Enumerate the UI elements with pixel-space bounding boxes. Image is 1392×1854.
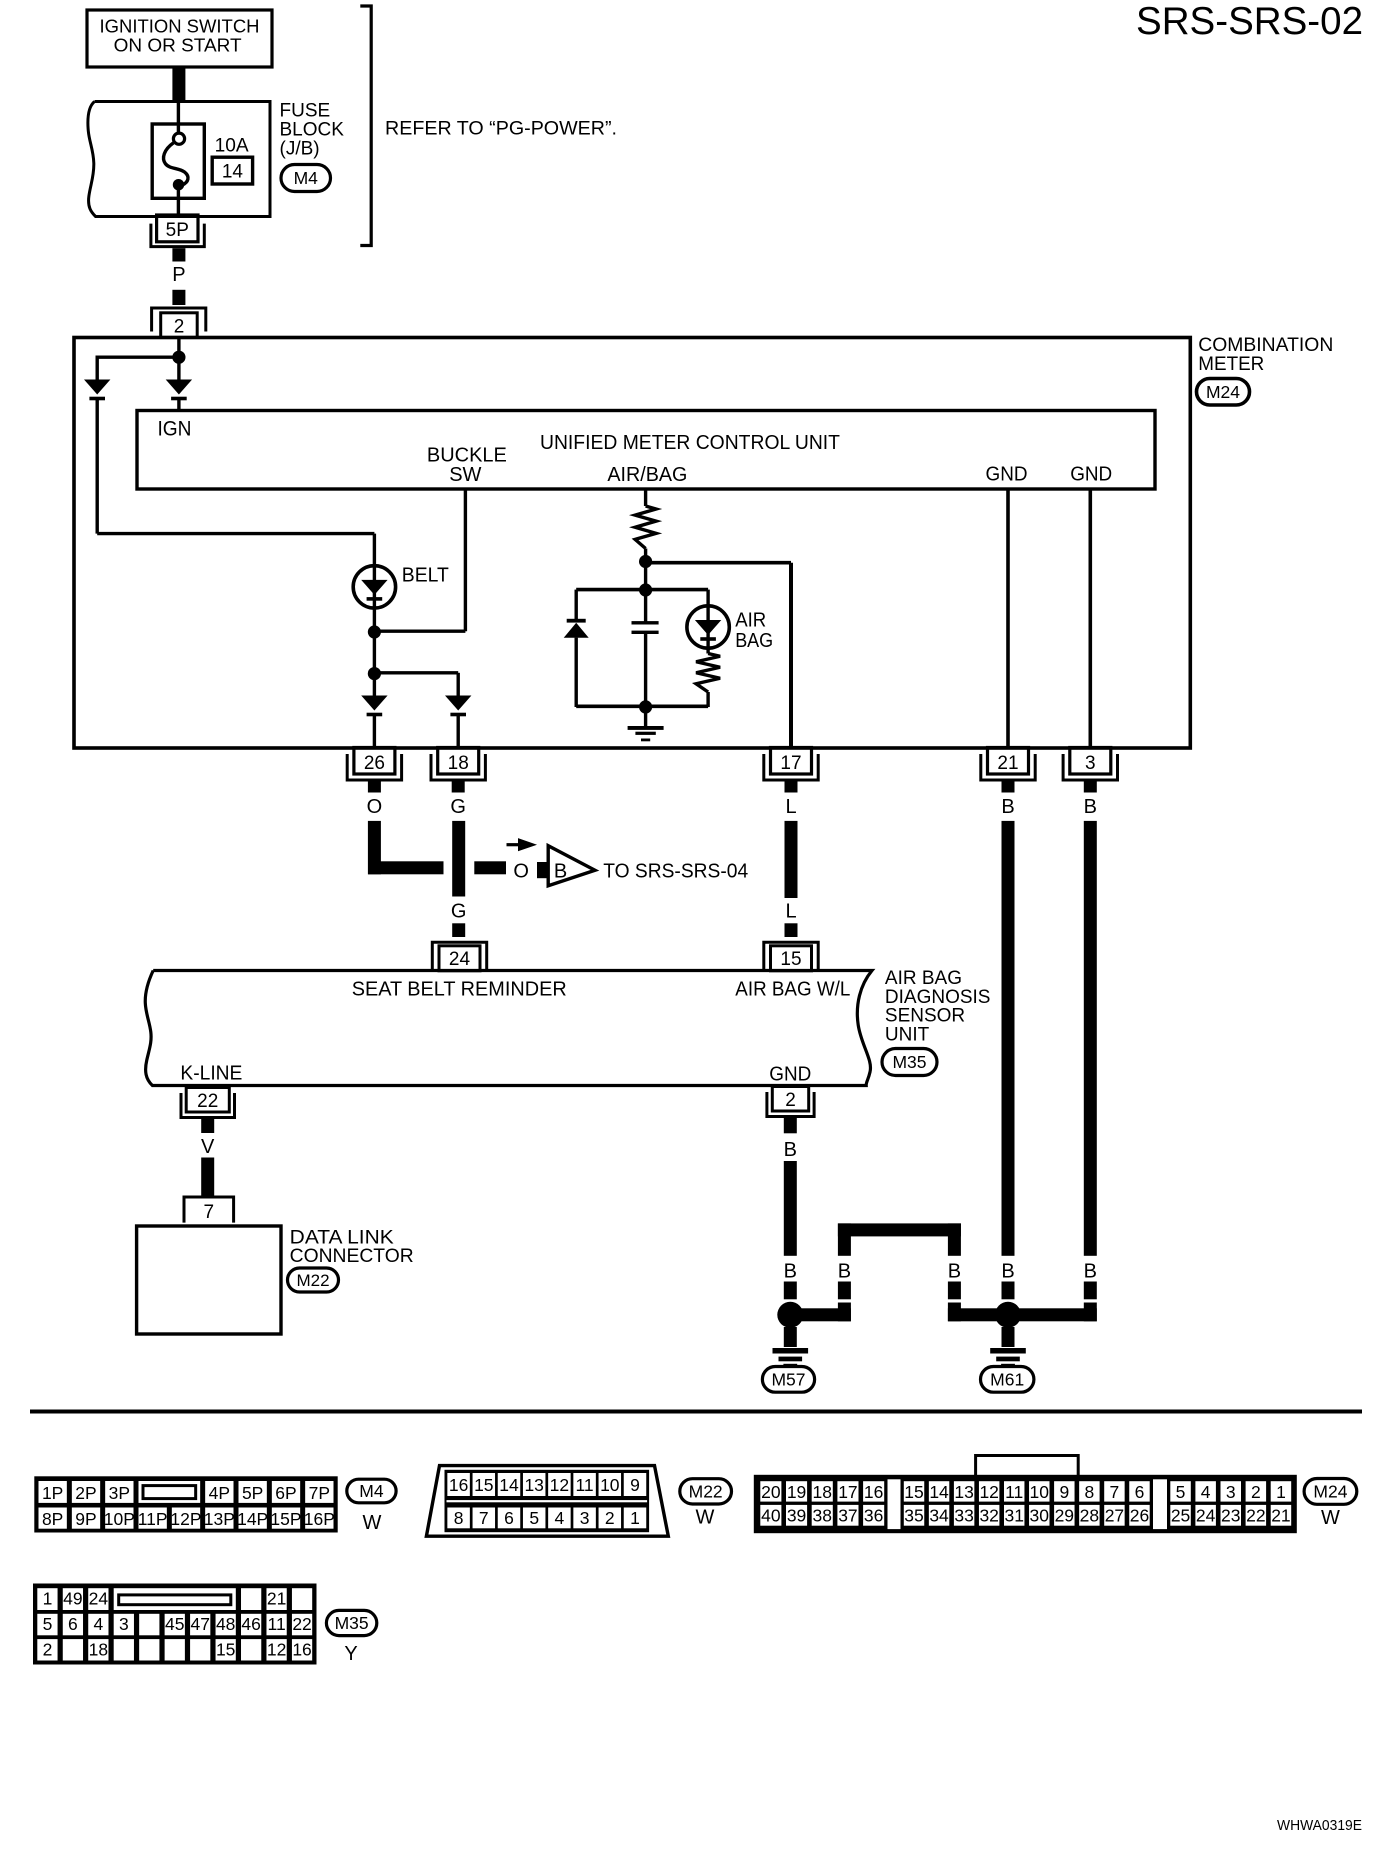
svg-text:14: 14 — [499, 1475, 519, 1495]
svg-text:M24: M24 — [1313, 1481, 1347, 1501]
svg-text:7: 7 — [1110, 1482, 1120, 1502]
svg-text:M4: M4 — [359, 1481, 384, 1501]
pin 26 of combination meter — [354, 748, 395, 775]
wire stub below 22 (thick) — [201, 1118, 214, 1134]
svg-text:IGN: IGN — [158, 418, 192, 441]
connector oval M35 id — [326, 1610, 376, 1635]
svg-text:METER: METER — [1198, 354, 1264, 375]
svg-text:FUSE: FUSE — [280, 101, 331, 122]
svg-text:5P: 5P — [242, 1483, 263, 1503]
svg-text:B: B — [1001, 796, 1014, 818]
svg-text:11P: 11P — [138, 1509, 168, 1529]
connector 2 under sensor unit (GND) — [772, 1087, 808, 1112]
svg-text:18: 18 — [448, 753, 469, 774]
svg-text:BAG: BAG — [735, 630, 773, 652]
fuse block J/B box with torn left edge — [88, 102, 270, 217]
svg-text:M4: M4 — [294, 168, 319, 188]
connector 2 on combination meter — [152, 308, 206, 332]
svg-text:B: B — [948, 1261, 961, 1283]
svg-text:29: 29 — [1055, 1506, 1074, 1526]
svg-text:BLOCK: BLOCK — [280, 120, 345, 141]
svg-text:21: 21 — [267, 1589, 286, 1609]
svg-text:GND: GND — [986, 464, 1028, 486]
separator line — [30, 1410, 1362, 1414]
ground oval M61 — [981, 1367, 1034, 1393]
svg-text:G: G — [450, 796, 466, 818]
svg-text:35: 35 — [904, 1506, 923, 1526]
svg-text:AIR BAG: AIR BAG — [885, 968, 962, 989]
svg-text:33: 33 — [954, 1506, 973, 1526]
svg-text:3: 3 — [580, 1508, 590, 1528]
connector oval M24 id — [1304, 1479, 1357, 1505]
node junction belt/buckle — [368, 625, 381, 638]
diode D1 left branch — [84, 380, 110, 395]
svg-text:49: 49 — [63, 1589, 82, 1609]
svg-text:26: 26 — [364, 753, 385, 774]
svg-text:V: V — [201, 1136, 215, 1158]
svg-text:4: 4 — [1201, 1482, 1211, 1502]
svg-text:TO SRS-SRS-04: TO SRS-SRS-04 — [603, 860, 748, 883]
bridge right corner to M61 junction — [948, 1303, 961, 1322]
svg-text:GND: GND — [769, 1064, 811, 1086]
svg-text:M57: M57 — [771, 1369, 805, 1389]
svg-text:18: 18 — [813, 1482, 832, 1502]
wire O continues to arrow — [474, 861, 506, 874]
svg-text:4: 4 — [93, 1614, 103, 1634]
wire D1 to corner and right to BELT branch — [95, 400, 98, 534]
svg-text:ON OR START: ON OR START — [114, 35, 242, 55]
svg-text:B: B — [1084, 1261, 1097, 1283]
svg-text:UNIFIED METER CONTROL UNIT: UNIFIED METER CONTROL UNIT — [540, 431, 840, 454]
svg-text:B: B — [554, 861, 567, 883]
svg-text:15: 15 — [904, 1482, 923, 1502]
svg-text:14: 14 — [929, 1482, 949, 1502]
svg-text:W: W — [363, 1512, 382, 1534]
wire G from pin 18 (thick) — [452, 821, 465, 897]
svg-text:23: 23 — [1221, 1506, 1240, 1526]
svg-text:9: 9 — [1059, 1482, 1069, 1502]
svg-text:38: 38 — [813, 1506, 832, 1526]
svg-text:22: 22 — [197, 1091, 218, 1112]
svg-text:6: 6 — [1135, 1482, 1145, 1502]
svg-text:1: 1 — [1276, 1482, 1286, 1502]
fuse number box 14 — [212, 157, 252, 184]
diode D3 to pin 26 — [373, 674, 376, 696]
LED BELT indicator — [353, 566, 395, 608]
svg-text:12: 12 — [267, 1640, 286, 1660]
svg-text:5: 5 — [43, 1614, 53, 1634]
connector face M35 (air bag diagnosis sensor unit) — [33, 1584, 317, 1665]
wire ignition switch to fuse block (thick) — [172, 67, 185, 100]
bridge left corner to M57 junction — [838, 1303, 851, 1322]
svg-text:5P: 5P — [166, 220, 189, 241]
svg-text:REFER TO “PG-POWER”.: REFER TO “PG-POWER”. — [385, 119, 617, 140]
wire bottom rail of parallel network — [576, 704, 708, 708]
svg-text:(J/B): (J/B) — [280, 139, 320, 160]
wire AIR/BAG pin down — [644, 489, 647, 506]
svg-text:1: 1 — [43, 1589, 53, 1609]
svg-text:AIR/BAG: AIR/BAG — [607, 464, 687, 486]
svg-text:O: O — [513, 861, 529, 883]
svg-text:SRS-SRS-02: SRS-SRS-02 — [1136, 0, 1363, 43]
connector 7 on data link connector — [184, 1197, 234, 1223]
svg-text:CONNECTOR: CONNECTOR — [290, 1246, 414, 1267]
svg-text:31: 31 — [1004, 1506, 1023, 1526]
off-page arrow triangle with B — [548, 846, 595, 886]
svg-text:10: 10 — [600, 1475, 620, 1495]
svg-text:15P: 15P — [270, 1509, 301, 1529]
svg-text:13: 13 — [524, 1475, 543, 1495]
svg-text:AIR BAG W/L: AIR BAG W/L — [735, 978, 850, 1001]
svg-text:27: 27 — [1105, 1506, 1124, 1526]
svg-text:12: 12 — [550, 1475, 569, 1495]
svg-text:21: 21 — [1271, 1506, 1290, 1526]
svg-text:11: 11 — [1005, 1482, 1023, 1502]
svg-text:L: L — [785, 796, 796, 818]
wire from connector 2 to junction — [177, 339, 180, 357]
data link connector box — [137, 1226, 281, 1334]
svg-text:G: G — [451, 901, 467, 923]
svg-text:24: 24 — [89, 1589, 109, 1609]
wire GND pin 3 down — [1089, 489, 1093, 747]
svg-text:24: 24 — [1196, 1506, 1216, 1526]
svg-text:6: 6 — [68, 1614, 78, 1634]
svg-text:8P: 8P — [42, 1509, 63, 1529]
wire junction to right diode branch — [374, 671, 458, 674]
svg-text:2: 2 — [43, 1640, 53, 1660]
svg-text:2: 2 — [605, 1508, 615, 1528]
svg-text:17: 17 — [780, 753, 801, 774]
connector oval M22 id — [680, 1479, 732, 1504]
svg-text:45: 45 — [165, 1614, 184, 1634]
svg-text:28: 28 — [1080, 1506, 1099, 1526]
svg-text:GND: GND — [1070, 464, 1112, 486]
diode D2 to IGN pin — [177, 357, 180, 379]
svg-text:8: 8 — [1085, 1482, 1095, 1502]
node junction bottom of network — [639, 700, 652, 713]
connector oval M4 id — [347, 1479, 396, 1503]
svg-text:10A: 10A — [215, 136, 249, 157]
wire stub to connector 15 (thick) — [785, 923, 798, 937]
wire stub above connector 2 (thick) — [172, 290, 185, 305]
connector oval M22 label — [288, 1268, 339, 1292]
svg-text:UNIT: UNIT — [885, 1025, 930, 1046]
svg-text:M61: M61 — [990, 1369, 1024, 1389]
svg-text:5: 5 — [529, 1508, 539, 1528]
connector oval M35 label — [882, 1049, 937, 1076]
svg-text:W: W — [696, 1507, 715, 1529]
svg-text:B: B — [784, 1261, 797, 1283]
combination meter outline box — [74, 338, 1190, 749]
node junction diode pair — [368, 667, 381, 680]
svg-text:12: 12 — [979, 1482, 998, 1502]
svg-text:W: W — [1321, 1507, 1340, 1529]
svg-text:AIR: AIR — [735, 610, 766, 632]
svg-text:13: 13 — [954, 1482, 973, 1502]
capacitor C1 (middle branch) — [644, 590, 647, 622]
reference bracket — [360, 6, 371, 246]
wire stub to connector 24 (thick) — [452, 923, 465, 937]
svg-text:P: P — [172, 264, 185, 286]
wire to parallel network — [644, 562, 647, 591]
node junction below connector 2 — [172, 351, 185, 364]
pin 21 of combination meter — [988, 748, 1029, 775]
connector 22 under sensor unit — [186, 1088, 229, 1113]
svg-text:2: 2 — [174, 316, 185, 337]
svg-text:4P: 4P — [209, 1483, 230, 1503]
wire stub below connector 2 (thick) — [784, 1117, 797, 1134]
svg-text:3P: 3P — [109, 1483, 130, 1503]
svg-text:46: 46 — [241, 1614, 260, 1634]
fuse 10A (box 14) symbol — [152, 124, 204, 198]
svg-text:7P: 7P — [309, 1483, 330, 1503]
svg-text:SW: SW — [449, 464, 481, 486]
svg-text:M35: M35 — [335, 1613, 369, 1633]
wire top rail of parallel network — [576, 588, 708, 592]
svg-text:22: 22 — [292, 1614, 311, 1634]
svg-text:15: 15 — [216, 1640, 235, 1660]
svg-text:IGNITION SWITCH: IGNITION SWITCH — [100, 17, 260, 37]
svg-text:B: B — [784, 1139, 797, 1161]
svg-text:10: 10 — [1030, 1482, 1050, 1502]
pin 3 of combination meter — [1070, 748, 1111, 775]
svg-text:34: 34 — [929, 1506, 949, 1526]
connector 5P on fuse block — [157, 215, 198, 242]
svg-text:O: O — [367, 796, 383, 818]
svg-text:BELT: BELT — [402, 565, 449, 587]
wire end square — [537, 862, 551, 878]
wire junction to left branch — [97, 356, 179, 359]
svg-text:5: 5 — [1176, 1482, 1186, 1502]
bridge wire between grounds (thick) — [838, 1223, 961, 1236]
svg-text:16P: 16P — [304, 1509, 335, 1529]
svg-text:26: 26 — [1130, 1506, 1149, 1526]
connector 24 on air bag diagnosis sensor unit — [432, 942, 486, 969]
svg-text:7: 7 — [204, 1202, 215, 1223]
svg-text:B: B — [838, 1261, 851, 1283]
node junction top of parallel network — [639, 583, 652, 596]
svg-text:3: 3 — [119, 1614, 129, 1634]
svg-text:16: 16 — [292, 1640, 311, 1660]
diode D4 to pin 18 — [445, 696, 471, 711]
svg-text:9: 9 — [630, 1475, 640, 1495]
connector oval M24 label — [1197, 379, 1250, 406]
ground junction node M61 — [995, 1302, 1021, 1328]
wire B from pin 21 (thick) — [1002, 821, 1015, 1256]
svg-text:12P: 12P — [170, 1509, 201, 1529]
wire GND pin 21 down — [1006, 489, 1010, 747]
svg-text:32: 32 — [979, 1506, 998, 1526]
air bag diagnosis sensor unit box with torn edges — [145, 971, 872, 1086]
svg-text:40: 40 — [761, 1506, 781, 1526]
svg-text:2: 2 — [1251, 1482, 1261, 1502]
svg-text:21: 21 — [997, 753, 1018, 774]
svg-text:15: 15 — [474, 1475, 493, 1495]
power source box IGNITION SWITCH ON OR START — [87, 10, 272, 67]
svg-text:14P: 14P — [237, 1509, 268, 1529]
svg-text:6: 6 — [504, 1508, 514, 1528]
pin 18 of combination meter — [438, 748, 479, 775]
svg-text:37: 37 — [838, 1506, 857, 1526]
svg-text:SEAT BELT REMINDER: SEAT BELT REMINDER — [352, 978, 567, 1001]
wire BUCKLE SW pin down — [464, 489, 467, 631]
svg-text:20: 20 — [761, 1482, 781, 1502]
svg-text:25: 25 — [1171, 1506, 1190, 1526]
direction arrow small — [507, 843, 523, 846]
resistor R2 below LED — [696, 654, 720, 693]
svg-text:L: L — [785, 901, 796, 923]
LED AIR BAG warning lamp — [706, 590, 709, 654]
body ground symbol M57 — [784, 1327, 797, 1347]
ground junction node M57 — [777, 1302, 803, 1328]
svg-text:11: 11 — [268, 1614, 286, 1634]
wire V to data link connector (thick) — [201, 1158, 214, 1198]
svg-text:B: B — [1001, 1261, 1014, 1283]
bridge right leg (thick) — [948, 1223, 961, 1255]
svg-text:M22: M22 — [296, 1271, 329, 1290]
svg-text:14: 14 — [222, 162, 244, 183]
svg-text:22: 22 — [1246, 1506, 1265, 1526]
svg-text:WHWA0319E: WHWA0319E — [1277, 1817, 1362, 1834]
svg-text:3: 3 — [1085, 753, 1096, 774]
wire to second junction — [373, 632, 376, 674]
svg-text:13P: 13P — [204, 1509, 235, 1529]
svg-text:3: 3 — [1226, 1482, 1236, 1502]
svg-text:B: B — [1084, 796, 1097, 818]
svg-text:24: 24 — [449, 949, 471, 970]
connector face M22 (data link connector) — [426, 1466, 668, 1537]
diode D5 clamp (left branch) — [575, 590, 578, 620]
svg-text:16: 16 — [449, 1475, 468, 1495]
svg-text:7: 7 — [479, 1508, 489, 1528]
svg-text:1: 1 — [630, 1508, 640, 1528]
wire stub below 5P (thick) — [172, 248, 185, 261]
svg-text:M22: M22 — [689, 1481, 723, 1501]
svg-text:36: 36 — [864, 1506, 883, 1526]
svg-text:17: 17 — [838, 1482, 857, 1502]
svg-text:18: 18 — [89, 1640, 108, 1660]
svg-text:6P: 6P — [275, 1483, 296, 1503]
svg-text:K-LINE: K-LINE — [180, 1063, 242, 1085]
wire B down to ground junction (thick) — [784, 1161, 797, 1256]
connector face M24 (combination meter) — [754, 1456, 1297, 1534]
svg-text:4: 4 — [555, 1508, 565, 1528]
svg-text:48: 48 — [216, 1614, 235, 1634]
svg-text:2P: 2P — [75, 1483, 96, 1503]
body ground symbol M61 — [1002, 1327, 1015, 1347]
svg-text:15: 15 — [780, 949, 801, 970]
unified meter control unit box — [137, 411, 1155, 490]
connector oval M4 — [281, 165, 331, 192]
svg-text:39: 39 — [787, 1506, 806, 1526]
svg-text:COMBINATION: COMBINATION — [1198, 335, 1333, 356]
svg-text:19: 19 — [787, 1482, 806, 1502]
svg-text:SENSOR: SENSOR — [885, 1006, 965, 1027]
svg-text:M35: M35 — [892, 1052, 926, 1072]
svg-text:M24: M24 — [1206, 382, 1240, 402]
svg-text:47: 47 — [190, 1614, 209, 1634]
corner from pin 3 wire to M61 junction — [1084, 1303, 1097, 1322]
wire B from pin 3 (thick) — [1084, 821, 1097, 1256]
svg-text:2: 2 — [785, 1090, 796, 1111]
resistor R1 on AIR/BAG line — [635, 506, 656, 549]
svg-text:11: 11 — [576, 1475, 594, 1495]
pin 17 of combination meter — [771, 748, 812, 775]
svg-text:16: 16 — [864, 1482, 883, 1502]
svg-text:30: 30 — [1030, 1506, 1050, 1526]
svg-text:10P: 10P — [104, 1509, 135, 1529]
svg-text:9P: 9P — [75, 1509, 96, 1529]
wire junction to pin 17 drop — [646, 561, 791, 565]
svg-text:8: 8 — [454, 1508, 464, 1528]
svg-text:1P: 1P — [42, 1483, 63, 1503]
wire O from pin 26 (thick L-shape) — [368, 821, 381, 874]
node junction to pin 17 — [639, 555, 652, 568]
wire L from pin 17 (thick) — [785, 821, 798, 898]
connector face M4 (fuse block) — [34, 1476, 337, 1532]
ground oval M57 — [762, 1367, 814, 1393]
svg-text:Y: Y — [344, 1643, 357, 1665]
ground internal of meter — [644, 707, 647, 726]
connector 15 on air bag diagnosis sensor unit — [764, 942, 818, 969]
